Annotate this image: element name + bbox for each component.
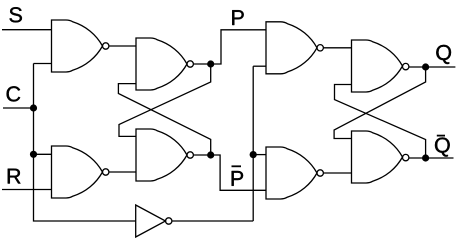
- wire R input: [2, 189, 52, 191]
- label C: [7, 86, 21, 101]
- nand gate G6: [266, 22, 317, 74]
- wire G2 top input stub: [34, 153, 52, 155]
- node Cbar junction: [250, 151, 257, 158]
- wire C input: [3, 107, 34, 109]
- nand gate G4: [136, 129, 187, 181]
- nand gate G9: [352, 131, 403, 183]
- node P junction: [207, 60, 214, 67]
- wire cross B (Pbar to G3 bottom input): [118, 84, 210, 155]
- wire G9 output to Qbar: [409, 157, 454, 159]
- wire G1 bottom input stub: [34, 63, 52, 65]
- nand gate G3: [136, 38, 187, 90]
- wire G6 bottom input stub: [253, 65, 266, 67]
- label Q: [436, 45, 451, 64]
- wire G8 output to Q: [409, 66, 456, 68]
- wire inverter output (Cbar): [172, 220, 253, 222]
- wire G4 output: [193, 154, 210, 156]
- wire cross A (P to G4 top input): [119, 64, 211, 136]
- wire G6 to G8: [323, 47, 351, 49]
- node C junction 2: [30, 151, 37, 158]
- label R: [8, 169, 21, 184]
- wire cross A2 (Q to G9 top input): [334, 67, 426, 139]
- wire Cbar riser: [252, 66, 254, 221]
- wire G3 output to P riser: [193, 30, 266, 64]
- node C junction 1: [30, 104, 37, 111]
- wire C riser: [34, 64, 136, 222]
- wire G7 to G9: [323, 172, 351, 174]
- nand gate G2: [52, 146, 103, 198]
- wire Pbar to G7 bottom input: [211, 155, 266, 190]
- node Qbar junction: [422, 154, 429, 161]
- label Pbar: [232, 171, 243, 186]
- nand gate G7: [266, 147, 317, 199]
- label Qbar: [435, 138, 450, 157]
- wire S input: [2, 29, 52, 31]
- wire G7 top input stub: [253, 154, 266, 156]
- label P: [232, 10, 243, 25]
- wire G1 to G3: [109, 45, 136, 47]
- node Pbar junction: [207, 151, 214, 158]
- wire cross B2 (Qbar to G8 bottom input): [335, 85, 426, 159]
- label S: [10, 7, 22, 22]
- wire G2 to G4: [109, 171, 136, 173]
- nand gate G1: [52, 20, 103, 72]
- node Q junction: [422, 63, 429, 70]
- inverter G5: [136, 205, 166, 237]
- nand gate G8: [352, 40, 403, 92]
